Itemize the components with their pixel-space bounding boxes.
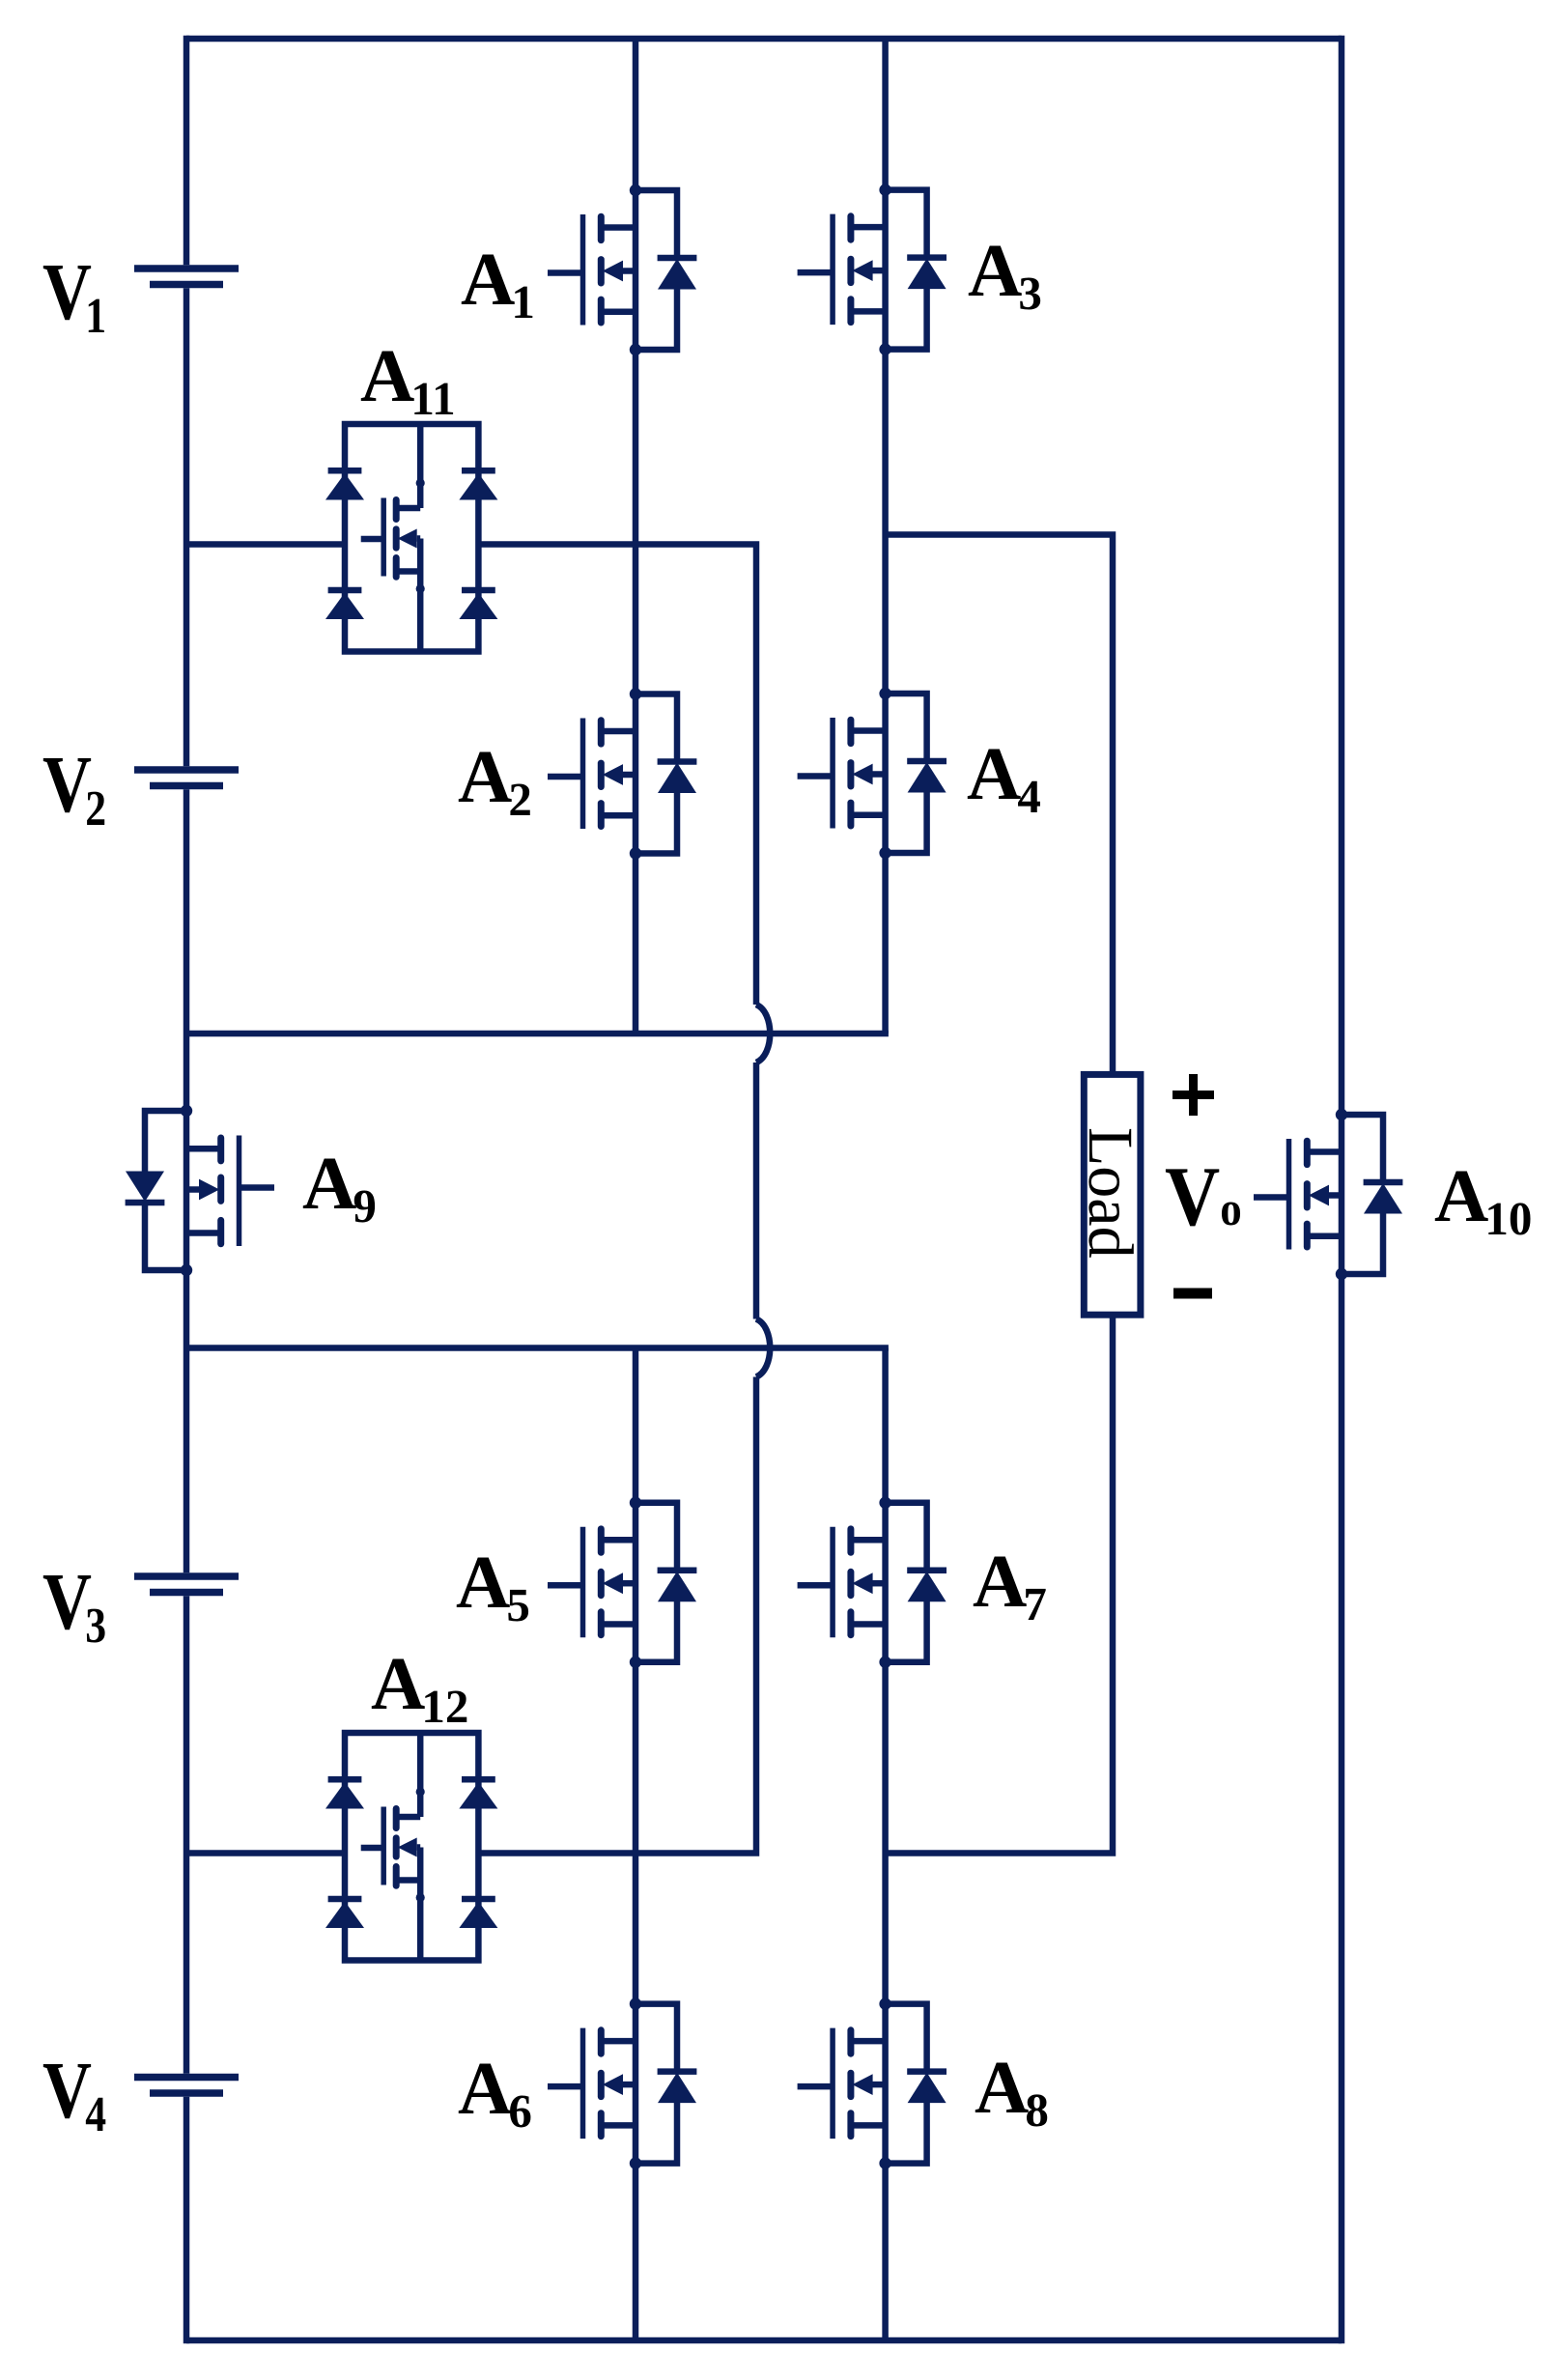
wire column A7-A8: A7 to A8 [882, 1662, 889, 2004]
wire bottom bus [186, 2337, 1342, 2344]
wire column A7-A8: node row to A7 [882, 1348, 889, 1503]
label minus sign [1173, 1289, 1212, 1299]
svg-text:Vo: Vo [1165, 1150, 1242, 1244]
wire top bus [186, 36, 1342, 42]
svg-text:A7: A7 [973, 1539, 1047, 1630]
svg-text:V2: V2 [42, 740, 106, 836]
label plus sign [1173, 1074, 1214, 1116]
switch A12 bridge [325, 1733, 497, 1961]
svg-text:A1: A1 [461, 237, 535, 328]
transistor A7 [798, 1497, 947, 1668]
wire column A1-A2: top bus to A1 [633, 39, 639, 190]
battery V1 [134, 269, 239, 285]
svg-text:A11: A11 [360, 333, 456, 425]
wire right rail: A10 to bottom bus [1339, 1274, 1345, 2343]
svg-text:Load: Load [1075, 1127, 1145, 1259]
svg-text:A6: A6 [458, 2046, 532, 2138]
wire column A3-A4: top bus to A3 [882, 39, 889, 190]
svg-text:A10: A10 [1434, 1153, 1532, 1245]
transistor A4 [798, 688, 947, 859]
transistor A1 [548, 184, 696, 355]
resistor Load box [1084, 1074, 1141, 1315]
wire A11 row left [186, 541, 348, 548]
svg-text:A9: A9 [302, 1141, 377, 1232]
wire jump rail middle [753, 1062, 760, 1319]
wire A3-A4 midpoint to load top [886, 535, 1113, 1075]
transistor A6 [548, 1997, 696, 2168]
transistor A9 [126, 1105, 274, 1276]
wire column A3-A4: A3 to A4 [882, 350, 889, 694]
transistor A8 [798, 1997, 947, 2168]
wire column A5-A6: node row to A5 [633, 1348, 639, 1503]
svg-text:A5: A5 [456, 1540, 530, 1631]
transistor A10 [1254, 1109, 1402, 1280]
wire column A7-A8: A8 to bottom bus [882, 2164, 889, 2340]
svg-text:A4: A4 [967, 731, 1041, 823]
wire jump rail to A12 row [478, 1377, 756, 1854]
wire left rail: A9 to V3 [184, 1270, 190, 1572]
wire right rail: top bus to A10 [1339, 36, 1345, 1115]
wire jump over node-A row [756, 1005, 770, 1062]
battery V4 [134, 2078, 239, 2094]
wire column A5-A6: A6 to bottom bus [633, 2164, 639, 2340]
wire column A5-A6: A5 to A6 [633, 1662, 639, 2004]
svg-text:V3: V3 [42, 1557, 106, 1654]
battery V2 [134, 770, 239, 786]
transistor A5 [548, 1497, 696, 1668]
wire load bottom to A7-A8 midpoint [886, 1315, 1113, 1853]
svg-text:V4: V4 [42, 2046, 106, 2142]
switch A11 bridge [325, 424, 497, 652]
wire node row A (upper) [186, 1031, 889, 1037]
wire A11 row right to jump rail [478, 545, 756, 1006]
wire left rail: V3 to V4 [184, 1596, 190, 2074]
svg-text:A8: A8 [975, 2045, 1049, 2137]
svg-text:V1: V1 [42, 247, 106, 344]
wire column A1-A2: A2 to node row [633, 854, 639, 1034]
battery V3 [134, 1576, 239, 1593]
transistor A2 [548, 688, 696, 859]
wire node row B (lower) [186, 1345, 889, 1351]
svg-text:A3: A3 [968, 228, 1042, 320]
wire jump over node-B row [756, 1319, 770, 1377]
wire left rail: top bus to V1 [184, 36, 190, 266]
wire A12 row left [186, 1850, 348, 1856]
wire column A1-A2: A1 to A2 [633, 350, 639, 694]
svg-text:A12: A12 [371, 1641, 468, 1733]
wire left rail: V1 to V2 [184, 288, 190, 766]
wire column A3-A4: A4 to node row [882, 853, 889, 1034]
svg-text:A2: A2 [458, 734, 532, 826]
wire left rail: V4 to bottom bus [184, 2097, 190, 2344]
wire left rail: V2 to A9 [184, 789, 190, 1111]
transistor A3 [798, 184, 947, 354]
